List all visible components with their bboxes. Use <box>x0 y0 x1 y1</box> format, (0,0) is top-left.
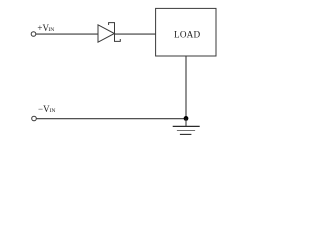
svg-text:LOAD: LOAD <box>174 29 200 39</box>
ground <box>173 119 200 135</box>
svg-text:IN: IN <box>50 108 56 114</box>
wire bottom: terminal to junction <box>36 118 186 120</box>
wire: LOAD bottom to ground junction <box>185 56 187 119</box>
wire top: terminal to diode anode <box>36 33 98 35</box>
LOAD box <box>156 8 216 56</box>
Schottky diode D1 <box>98 23 120 43</box>
junction node <box>184 116 189 121</box>
terminal +VIN <box>31 32 36 37</box>
svg-text:IN: IN <box>48 27 54 33</box>
terminal -VIN <box>32 116 37 121</box>
wire: diode cathode to LOAD <box>115 33 156 35</box>
svg-text:−V: −V <box>38 104 50 114</box>
